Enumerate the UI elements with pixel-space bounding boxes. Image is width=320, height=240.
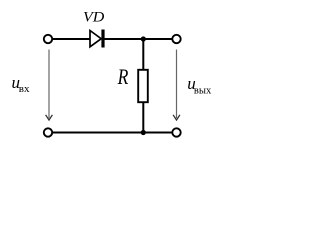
svg-text:R: R [117, 65, 129, 90]
wire vertical (node to resistor top) [142, 39, 144, 70]
wire top-right (diode cathode to output terminal) [103, 38, 172, 40]
resistor R [138, 70, 148, 102]
terminal output top [172, 35, 180, 43]
node A (top junction) [141, 36, 146, 41]
diode VD [90, 30, 103, 48]
terminal output bottom [172, 128, 180, 136]
voltage arrow u_vyx (right) [173, 50, 180, 121]
svg-text:VD: VD [83, 10, 104, 26]
wire vertical (resistor bottom to node) [142, 102, 144, 133]
node B (bottom junction) [141, 130, 146, 135]
voltage arrow u_vx (left) [46, 50, 53, 121]
svg-text:вх: вх [19, 83, 30, 95]
wire bottom [53, 132, 172, 134]
svg-text:вых: вых [194, 84, 212, 96]
terminal input bottom [44, 128, 52, 136]
terminal input top [44, 35, 52, 43]
wire top-left (input terminal to diode anode) [53, 38, 90, 40]
